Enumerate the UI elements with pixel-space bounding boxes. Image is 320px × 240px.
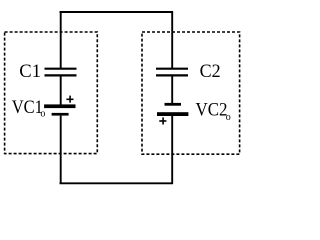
svg-text:o: o bbox=[40, 109, 45, 120]
svg-text:C1: C1 bbox=[19, 61, 41, 82]
svg-text:C2: C2 bbox=[200, 61, 221, 82]
svg-text:VC1: VC1 bbox=[12, 97, 43, 118]
svg-text:o: o bbox=[226, 112, 231, 123]
svg-text:VC2: VC2 bbox=[196, 100, 228, 121]
